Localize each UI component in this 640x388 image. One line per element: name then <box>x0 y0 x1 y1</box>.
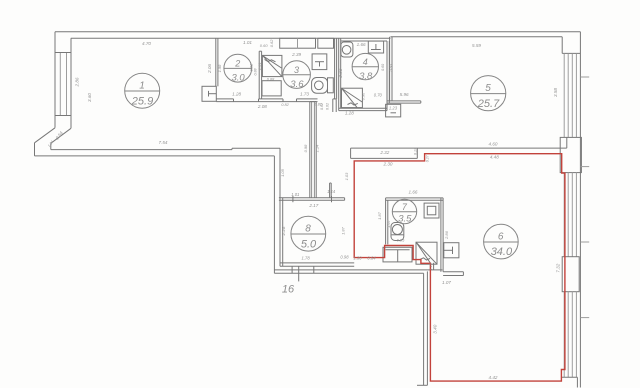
svg-text:3.40: 3.40 <box>432 324 437 333</box>
wall corridor bottom <box>274 269 442 271</box>
wall room4 right <box>386 41 388 111</box>
radiator box room1 <box>202 86 216 101</box>
svg-text:0.98: 0.98 <box>340 255 349 260</box>
wall room1 bottom inner <box>50 143 52 149</box>
toilet room7 <box>391 223 404 241</box>
wall room5 left <box>389 37 391 101</box>
svg-text:0.88: 0.88 <box>267 77 275 81</box>
wall room5 bottom band <box>351 147 567 149</box>
vent shaft box <box>386 104 401 117</box>
room circle 6 <box>484 224 519 259</box>
svg-text:0.60: 0.60 <box>381 64 385 71</box>
svg-text:1.87: 1.87 <box>377 211 382 220</box>
svg-text:4.48: 4.48 <box>490 155 499 160</box>
svg-text:0.64: 0.64 <box>367 256 376 261</box>
svg-text:0.88: 0.88 <box>254 69 258 76</box>
pier top-right <box>561 37 563 54</box>
step below room8 <box>291 266 293 273</box>
svg-text:1.67: 1.67 <box>386 219 391 228</box>
wall left inner <box>70 38 72 128</box>
svg-text:4.70: 4.70 <box>142 41 151 46</box>
svg-text:4.42: 4.42 <box>489 375 498 380</box>
svg-text:3.60: 3.60 <box>87 93 92 102</box>
svg-text:1.98: 1.98 <box>217 64 222 73</box>
svg-text:2.06: 2.06 <box>207 64 212 74</box>
svg-text:2.28: 2.28 <box>281 226 286 236</box>
wall right outer <box>579 32 581 388</box>
svg-text:5.59: 5.59 <box>472 43 481 48</box>
room circle 8 <box>291 216 326 251</box>
svg-text:1.66: 1.66 <box>357 42 366 47</box>
svg-text:8: 8 <box>305 224 311 235</box>
dimension labels <box>142 39 499 380</box>
svg-text:2.08: 2.08 <box>257 104 267 109</box>
wall rooms2-3 bottom <box>216 98 233 100</box>
svg-text:2.30: 2.30 <box>383 161 393 166</box>
svg-text:1.73: 1.73 <box>300 92 309 97</box>
svg-text:4.60: 4.60 <box>489 142 498 147</box>
svg-text:2.32: 2.32 <box>379 150 389 155</box>
entry jamb <box>443 271 463 273</box>
svg-text:0.60: 0.60 <box>260 43 269 48</box>
svg-text:1.30: 1.30 <box>353 255 362 260</box>
svg-text:6: 6 <box>498 232 504 243</box>
sink room7 <box>424 203 439 218</box>
wall diagonal outer <box>35 128 56 143</box>
wall top outer <box>55 31 580 33</box>
wall room1 bottom outer <box>35 155 275 157</box>
room circle 1 <box>125 73 160 108</box>
svg-text:5: 5 <box>485 83 491 94</box>
shower room7 <box>416 242 437 264</box>
svg-text:2.39: 2.39 <box>291 52 301 57</box>
wall under room5 left part <box>387 100 421 102</box>
svg-text:1.15: 1.15 <box>429 263 433 270</box>
wall room7 top <box>386 197 444 199</box>
wall top inner left <box>71 37 391 39</box>
wall stub room8 door <box>329 183 331 198</box>
svg-text:0.82: 0.82 <box>281 102 289 107</box>
svg-text:0.70: 0.70 <box>374 93 383 98</box>
cabinet row room3 <box>280 38 316 48</box>
wall corridor left inner <box>279 148 281 198</box>
facade ticks <box>580 76 589 78</box>
room numbers and areas <box>131 57 513 296</box>
room circles <box>125 53 519 259</box>
sink room4 <box>341 42 353 57</box>
svg-text:16: 16 <box>282 284 295 296</box>
room circle 7 <box>392 199 416 223</box>
room circle 2 <box>224 54 252 82</box>
svg-text:0.62: 0.62 <box>326 103 330 110</box>
room circle 3 <box>283 61 311 89</box>
shower room3 <box>262 55 282 76</box>
svg-text:0.82: 0.82 <box>315 103 323 107</box>
wall room6 west <box>423 273 425 385</box>
svg-text:0.98: 0.98 <box>303 144 308 153</box>
svg-text:2.17: 2.17 <box>308 203 318 208</box>
shower room4 <box>342 88 363 107</box>
svg-text:0.62: 0.62 <box>269 39 274 48</box>
room circle 4 <box>352 53 378 79</box>
svg-text:2.86: 2.86 <box>444 230 449 240</box>
cabinet room4 <box>368 41 383 53</box>
pier C <box>562 257 579 292</box>
svg-text:1.87: 1.87 <box>341 226 346 235</box>
pier D bottom <box>561 376 577 378</box>
room circle 5 <box>471 76 506 111</box>
wall room3/room4 shaft <box>338 38 340 110</box>
window W1 sill top <box>55 52 71 54</box>
svg-text:1.03: 1.03 <box>344 172 349 181</box>
svg-text:1.61: 1.61 <box>257 62 262 70</box>
washing machine room3 <box>262 81 281 96</box>
washer box lot boundary <box>383 247 412 262</box>
svg-text:5.0: 5.0 <box>301 239 317 251</box>
svg-text:3.0: 3.0 <box>231 73 245 84</box>
wall corridor right <box>309 102 311 198</box>
svg-text:3.8: 3.8 <box>359 71 373 82</box>
svg-text:1.01: 1.01 <box>291 192 299 197</box>
sink room3 <box>312 54 327 70</box>
svg-text:3.58: 3.58 <box>553 88 558 97</box>
svg-text:1.01: 1.01 <box>243 40 252 45</box>
svg-text:7.54: 7.54 <box>159 140 168 145</box>
wall room1/room2 <box>215 38 217 86</box>
wall room8 left <box>279 148 281 266</box>
svg-text:1.28: 1.28 <box>345 110 354 115</box>
towel rail box <box>444 243 459 258</box>
wall top inner right <box>391 36 563 38</box>
wall stub right of corridor opening <box>332 99 334 112</box>
wall room3 right <box>334 38 336 99</box>
wall left-bottom outer <box>34 143 36 156</box>
svg-text:0.96: 0.96 <box>362 92 366 100</box>
svg-text:1.07: 1.07 <box>442 280 451 285</box>
wall room7 right <box>440 198 442 272</box>
svg-text:2: 2 <box>234 59 240 69</box>
svg-text:4: 4 <box>363 57 368 67</box>
rotated dimension labels <box>47 62 560 333</box>
wall left outer <box>54 32 56 128</box>
svg-text:2.33: 2.33 <box>338 68 343 78</box>
pier B <box>560 137 581 172</box>
window W2 glazing <box>563 53 565 137</box>
svg-text:25.7: 25.7 <box>477 98 500 110</box>
svg-text:2.86: 2.86 <box>74 77 79 87</box>
svg-text:0.60: 0.60 <box>389 64 393 71</box>
wall room8 bottom <box>280 262 354 264</box>
wall room4 bottom <box>339 107 387 109</box>
svg-text:1.78: 1.78 <box>302 255 311 260</box>
window W1 sill bottom <box>55 115 71 117</box>
svg-text:1.05: 1.05 <box>280 168 285 177</box>
svg-text:5.96: 5.96 <box>400 92 409 97</box>
wall diagonal inner <box>51 128 71 143</box>
svg-text:0.85: 0.85 <box>397 238 406 243</box>
tick below room8 <box>298 266 300 281</box>
svg-text:7.32: 7.32 <box>555 263 560 272</box>
svg-text:25.9: 25.9 <box>131 96 153 108</box>
svg-text:3.6: 3.6 <box>290 79 304 90</box>
svg-text:1.14: 1.14 <box>327 189 336 194</box>
wall room2/room3 <box>258 51 260 99</box>
svg-text:1: 1 <box>139 81 145 92</box>
svg-text:0.17: 0.17 <box>414 147 418 155</box>
window W1 glazing <box>59 53 61 116</box>
svg-text:1.14: 1.14 <box>315 144 320 153</box>
svg-text:34.0: 34.0 <box>491 246 513 258</box>
svg-text:3.5: 3.5 <box>398 214 412 225</box>
svg-text:1.66: 1.66 <box>409 190 418 195</box>
window W4 glazing <box>563 292 565 378</box>
toilet room3 <box>312 78 328 94</box>
wall room4 top inner <box>341 40 387 42</box>
svg-text:3: 3 <box>294 65 299 75</box>
wall room7 left <box>385 198 387 245</box>
svg-text:1.23: 1.23 <box>389 106 398 111</box>
tick room8 top <box>292 196 294 202</box>
wall room8 top <box>279 197 345 199</box>
svg-text:1.28: 1.28 <box>232 92 241 97</box>
window W3 glazing <box>563 173 565 257</box>
red lot 6 boundary <box>354 154 565 381</box>
wall corridor left outer <box>273 156 275 273</box>
svg-text:0.27: 0.27 <box>426 154 430 162</box>
